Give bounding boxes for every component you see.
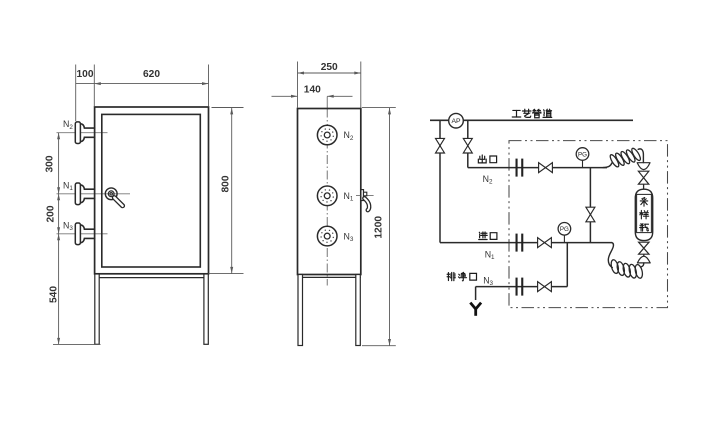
label 排净口 — [447, 272, 455, 280]
coil tubing (bottom) — [608, 243, 613, 268]
bulkhead union on drain — [516, 278, 518, 296]
front view: nozzle N2 centerline — [57, 132, 108, 134]
dimension 140 — [272, 95, 298, 97]
valve on left tap — [436, 138, 445, 145]
side view: door handle — [356, 194, 374, 196]
front view: door panel — [102, 114, 201, 267]
side view: right leg — [356, 275, 361, 346]
front nozzle N3 — [80, 225, 94, 229]
svg-text:PG: PG — [560, 226, 569, 233]
valve on drain line — [538, 282, 545, 292]
svg-text:300: 300 — [45, 155, 56, 172]
front view: nozzle N1 centerline — [57, 193, 131, 195]
inlet line N1 — [440, 242, 612, 244]
front view: cabinet bottom plate — [95, 277, 209, 279]
valve below sample bottle — [639, 242, 649, 248]
quick connector (top) — [637, 163, 650, 170]
svg-text:1200: 1200 — [373, 216, 384, 239]
svg-text:AP: AP — [451, 118, 461, 125]
side view: left leg — [298, 275, 303, 346]
drain funnel Y — [475, 287, 477, 300]
drain line N3 — [476, 286, 568, 288]
dimension 1200 — [362, 107, 396, 109]
quick connector (bottom) — [637, 256, 650, 263]
svg-text:200: 200 — [46, 205, 57, 222]
outlet tap pipe — [467, 120, 469, 167]
sample bottle 采样瓶 — [635, 189, 652, 240]
svg-text:250: 250 — [321, 62, 338, 73]
outlet line N2 — [468, 167, 607, 169]
front nozzle N2 — [80, 124, 94, 128]
valve above sample bottle — [638, 171, 648, 178]
front view: left leg — [95, 274, 99, 344]
dimension 100/620 extension lines — [75, 65, 77, 122]
side view: cabinet body — [298, 109, 361, 275]
pressure gauge PG (outlet) — [582, 161, 584, 168]
valve on outlet line — [539, 163, 546, 173]
door handle — [105, 188, 117, 200]
valve on outlet tap — [463, 138, 472, 145]
svg-text:800: 800 — [220, 175, 231, 192]
side nozzle circle N2 — [317, 125, 337, 145]
bypass pipe — [589, 168, 591, 243]
bulkhead union on outlet — [516, 159, 518, 177]
svg-text:140: 140 — [304, 85, 321, 96]
process pipe 工艺管道 — [430, 119, 633, 121]
valve on inlet line — [538, 238, 545, 248]
coil tubing (top) — [603, 163, 612, 168]
side nozzle circle N1 — [317, 186, 337, 206]
front view: nozzle N3 centerline — [57, 233, 108, 235]
drain riser — [566, 243, 568, 287]
front view: right leg — [204, 274, 208, 344]
label 采样瓶 — [640, 197, 648, 206]
dimension line 100/620 — [76, 83, 209, 85]
svg-text:100: 100 — [77, 69, 94, 80]
cabinet boundary (chain line) — [509, 141, 668, 308]
left tap pipe — [439, 120, 441, 242]
front view: cabinet body — [95, 107, 209, 274]
bypass valve — [586, 207, 595, 214]
dimension 800 — [212, 107, 244, 109]
dimension chain 300/200/540 — [58, 133, 60, 345]
svg-text:PG: PG — [578, 151, 587, 158]
label 进口 — [479, 232, 487, 240]
pressure gauge PG (inlet) — [563, 235, 565, 242]
label 出口 — [478, 155, 486, 163]
side nozzle circle N3 — [317, 226, 337, 246]
side view: vertical centerline — [326, 97, 328, 109]
side view: bottom plate — [298, 276, 361, 278]
svg-text:540: 540 — [49, 286, 60, 303]
bulkhead union on inlet — [516, 234, 518, 252]
dimension 250 — [297, 62, 299, 109]
svg-text:620: 620 — [143, 69, 160, 80]
label 工艺管道 — [512, 110, 520, 117]
analyzer point AP — [449, 113, 464, 128]
front nozzle N1 — [80, 185, 94, 189]
